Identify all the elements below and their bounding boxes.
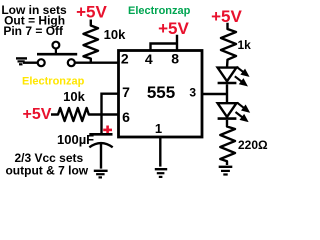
- svg-text:+5V: +5V: [158, 19, 189, 38]
- capacitor C1 100uF (polarized): [89, 134, 112, 147]
- capacitor C1 polarity mark +: [103, 126, 112, 135]
- svg-text:output & 7 low: output & 7 low: [5, 163, 88, 177]
- svg-text:555: 555: [147, 83, 175, 102]
- svg-text:220Ω: 220Ω: [238, 138, 268, 152]
- svg-text:6: 6: [122, 109, 130, 125]
- ground (R4): [219, 167, 233, 175]
- svg-text:2: 2: [121, 51, 129, 67]
- svg-text:+5V: +5V: [23, 106, 52, 123]
- svg-text:1k: 1k: [238, 38, 252, 52]
- svg-text:1: 1: [155, 121, 162, 136]
- wire junction vertical (pin7 / pin6 / C1): [100, 93, 102, 136]
- svg-text:+5V: +5V: [76, 2, 107, 21]
- resistor R2 10k (timing, horizontal): [51, 108, 102, 121]
- wire pin 7 stub: [102, 92, 119, 94]
- note text: Low in sets / Out = High / Pin 7 = Off: [1, 3, 67, 38]
- svg-text:7: 7: [122, 84, 130, 100]
- svg-text:Electronzap: Electronzap: [128, 5, 191, 17]
- resistor R4 220 ohm: [220, 120, 235, 165]
- svg-text:10k: 10k: [104, 27, 126, 42]
- wire C1 to ground: [100, 144, 102, 169]
- wire switch to pin 2 (node with R1): [75, 62, 118, 64]
- svg-text:Electronzap: Electronzap: [22, 75, 85, 87]
- resistor R1 10k (pull-up to pin 2): [84, 20, 99, 63]
- svg-text:4: 4: [145, 51, 153, 67]
- svg-text:100µF: 100µF: [57, 132, 94, 147]
- pushbutton SW1 (momentary, N.O.): [37, 42, 77, 67]
- svg-text:10k: 10k: [63, 89, 85, 104]
- LED D2 emission arrows: [236, 103, 249, 121]
- resistor R3 1k: [221, 23, 236, 68]
- wire pin 3 to LED junction: [202, 93, 227, 95]
- ground (switch side): [16, 58, 27, 64]
- svg-text:3: 3: [189, 86, 196, 100]
- LED D2 (to ground): [218, 103, 237, 118]
- wire pin 1 to ground: [159, 137, 161, 167]
- svg-text:8: 8: [171, 50, 179, 66]
- wire +5V to pins 4 and 8 (bracket): [151, 35, 178, 50]
- wire D1 cathode to pin3 node to D2 anode: [226, 84, 228, 103]
- note text: 2/3 Vcc sets / output & 7 low: [5, 151, 88, 178]
- wire pin 6 stub: [102, 113, 119, 115]
- ground (pin 1): [155, 169, 167, 177]
- wire ground to switch contact: [23, 62, 38, 64]
- LED D1 (to +5V): [218, 68, 237, 83]
- LED D1 emission arrows: [235, 67, 248, 85]
- svg-text:Pin 7 = Off: Pin 7 = Off: [3, 24, 64, 38]
- IC U1 555 timer (body): [119, 51, 203, 138]
- ground (C1): [94, 171, 108, 178]
